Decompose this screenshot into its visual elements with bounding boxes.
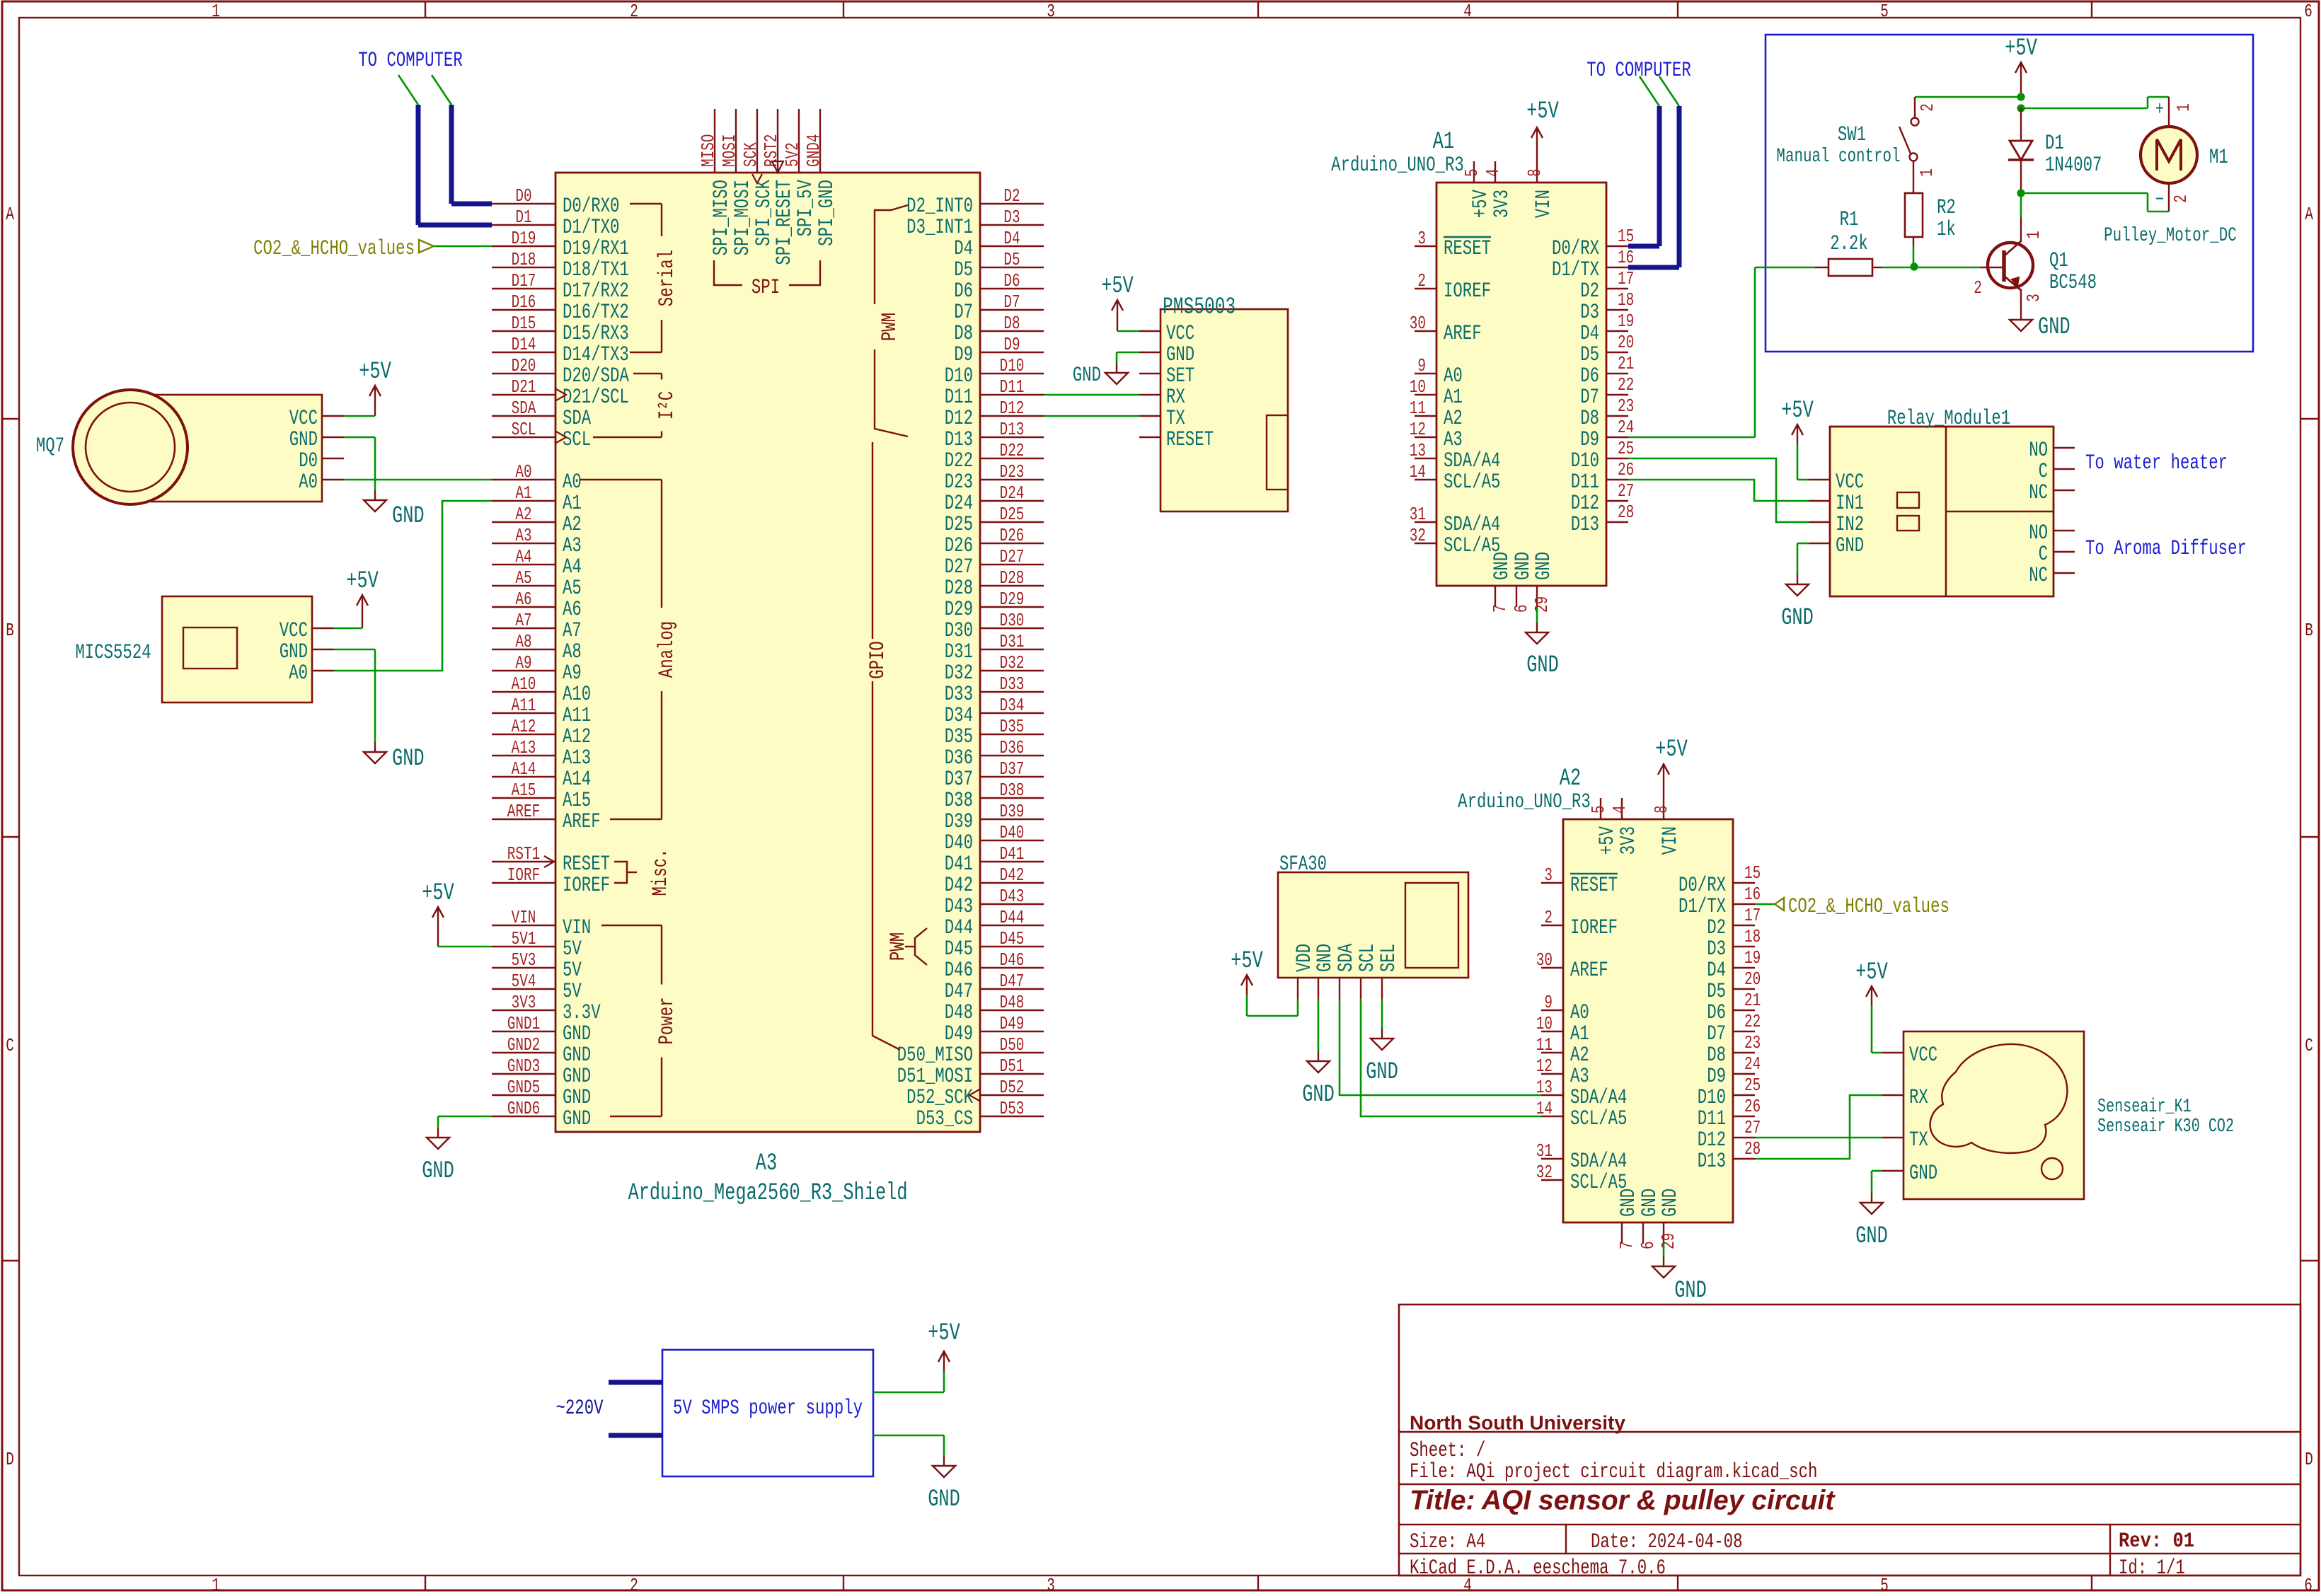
svg-text:D0/RX: D0/RX — [1552, 236, 1599, 260]
svg-text:D25: D25 — [1000, 504, 1025, 524]
svg-text:D1/TX0: D1/TX0 — [563, 215, 619, 239]
svg-text:PWM: PWM — [886, 932, 910, 961]
svg-text:D48: D48 — [1000, 992, 1025, 1012]
svg-text:D8: D8 — [1003, 313, 1020, 333]
svg-text:D2: D2 — [1580, 279, 1599, 303]
svg-text:17: 17 — [1744, 905, 1761, 925]
svg-text:RESET: RESET — [1570, 873, 1618, 897]
svg-text:A10: A10 — [563, 682, 591, 706]
svg-text:D49: D49 — [1000, 1013, 1025, 1034]
svg-text:VCC: VCC — [289, 406, 318, 430]
svg-text:D1: D1 — [2045, 131, 2064, 155]
svg-text:D11: D11 — [1698, 1106, 1726, 1130]
svg-text:Misc.: Misc. — [648, 848, 672, 896]
svg-text:A8: A8 — [563, 640, 582, 664]
svg-text:5V1: 5V1 — [512, 928, 536, 949]
svg-text:MQ7: MQ7 — [36, 434, 64, 458]
svg-text:D38: D38 — [945, 788, 973, 812]
svg-text:D31: D31 — [945, 640, 973, 664]
svg-text:A2: A2 — [563, 512, 582, 536]
svg-text:IOREF: IOREF — [563, 873, 610, 897]
svg-text:D24: D24 — [1000, 482, 1025, 503]
svg-text:10: 10 — [1410, 376, 1426, 397]
svg-text:D51: D51 — [1000, 1056, 1025, 1076]
svg-text:D21/SCL: D21/SCL — [563, 385, 629, 409]
svg-text:+5V: +5V — [359, 359, 391, 386]
svg-text:D47: D47 — [1000, 971, 1025, 991]
svg-text:3: 3 — [1544, 865, 1553, 885]
svg-text:D41: D41 — [1000, 843, 1025, 864]
svg-text:12: 12 — [1410, 419, 1426, 439]
svg-text:C: C — [6, 1035, 14, 1056]
svg-text:IN1: IN1 — [1836, 491, 1864, 515]
svg-text:D6: D6 — [954, 279, 973, 303]
svg-text:3: 3 — [1047, 1575, 1055, 1592]
svg-text:TO COMPUTER: TO COMPUTER — [358, 48, 463, 72]
svg-text:5: 5 — [1880, 1575, 1889, 1592]
svg-text:GND3: GND3 — [507, 1056, 540, 1076]
svg-text:D14/TX3: D14/TX3 — [563, 342, 629, 366]
svg-text:D7: D7 — [1707, 1022, 1726, 1046]
svg-text:A4: A4 — [563, 555, 582, 579]
svg-text:TX: TX — [1166, 406, 1185, 430]
svg-text:D34: D34 — [945, 703, 973, 727]
svg-text:D9: D9 — [1580, 427, 1599, 451]
svg-text:MISO: MISO — [698, 134, 718, 167]
svg-text:2: 2 — [2170, 195, 2191, 203]
svg-text:+5V: +5V — [422, 880, 454, 908]
svg-text:GND: GND — [1616, 1189, 1640, 1217]
svg-text:IORF: IORF — [507, 865, 540, 885]
svg-text:D2: D2 — [1707, 915, 1726, 939]
svg-text:D4: D4 — [954, 236, 973, 260]
svg-text:SPI_GND: SPI_GND — [814, 180, 839, 246]
svg-text:File: AQi project circuit diag: File: AQi project circuit diagram.kicad_… — [1410, 1459, 1817, 1484]
svg-text:M1: M1 — [2209, 145, 2228, 169]
svg-text:GND: GND — [563, 1085, 591, 1109]
svg-text:14: 14 — [1410, 461, 1426, 482]
svg-text:SDA: SDA — [512, 398, 536, 418]
svg-text:D21: D21 — [512, 376, 536, 397]
svg-text:D29: D29 — [945, 597, 973, 621]
svg-text:31: 31 — [1536, 1140, 1553, 1161]
svg-text:+: + — [2155, 98, 2165, 121]
svg-text:19: 19 — [1744, 947, 1761, 968]
svg-text:D6: D6 — [1003, 270, 1020, 291]
svg-text:D24: D24 — [945, 491, 973, 515]
svg-text:D0/RX: D0/RX — [1678, 873, 1726, 897]
svg-text:D3: D3 — [1707, 937, 1726, 961]
svg-text:CO2_&_HCHO_values: CO2_&_HCHO_values — [253, 236, 415, 260]
svg-text:2: 2 — [1417, 270, 1426, 291]
svg-text:Senseair K30 CO2: Senseair K30 CO2 — [2097, 1116, 2234, 1138]
svg-text:B: B — [2305, 620, 2313, 640]
svg-text:D15/RX3: D15/RX3 — [563, 321, 629, 345]
svg-text:D2: D2 — [1003, 185, 1020, 206]
svg-text:SDA: SDA — [563, 406, 591, 430]
svg-text:A0: A0 — [515, 461, 531, 482]
svg-text:D36: D36 — [1000, 737, 1025, 758]
svg-text:Manual control: Manual control — [1776, 145, 1900, 168]
svg-text:D33: D33 — [945, 682, 973, 706]
svg-text:A11: A11 — [563, 703, 591, 727]
svg-text:A0: A0 — [563, 470, 582, 494]
svg-text:PWM: PWM — [877, 313, 902, 341]
svg-text:VIN: VIN — [563, 915, 591, 939]
svg-text:D53: D53 — [1000, 1098, 1025, 1118]
svg-text:~220V: ~220V — [555, 1396, 603, 1420]
svg-text:RX: RX — [1909, 1085, 1928, 1109]
svg-text:Arduino_UNO_R3: Arduino_UNO_R3 — [1331, 153, 1464, 177]
svg-text:5V: 5V — [563, 958, 582, 982]
svg-text:VIN: VIN — [1531, 190, 1555, 218]
svg-text:GND: GND — [392, 503, 425, 531]
svg-text:IOREF: IOREF — [1444, 279, 1491, 303]
svg-text:7: 7 — [1616, 1241, 1637, 1249]
svg-text:8: 8 — [1651, 805, 1671, 814]
svg-text:D43: D43 — [945, 894, 973, 918]
svg-text:A15: A15 — [563, 788, 591, 812]
svg-text:D4: D4 — [1580, 321, 1599, 345]
svg-text:32: 32 — [1536, 1162, 1553, 1182]
svg-text:+5V: +5V — [1855, 959, 1888, 987]
svg-text:3.3V: 3.3V — [563, 1000, 601, 1024]
svg-text:SDA/A4: SDA/A4 — [1570, 1085, 1627, 1109]
svg-text:D25: D25 — [945, 512, 973, 536]
svg-text:D50: D50 — [1000, 1034, 1025, 1055]
svg-text:A14: A14 — [563, 767, 591, 791]
svg-text:+5V: +5V — [346, 568, 379, 596]
svg-text:D22: D22 — [945, 449, 973, 473]
svg-text:Id: 1/1: Id: 1/1 — [2119, 1556, 2185, 1580]
svg-text:8: 8 — [1524, 168, 1545, 177]
svg-text:A13: A13 — [563, 746, 591, 770]
svg-text:SPI_MOSI: SPI_MOSI — [730, 180, 754, 255]
svg-text:D44: D44 — [1000, 907, 1025, 927]
svg-text:D26: D26 — [945, 533, 973, 557]
svg-text:D9: D9 — [954, 342, 973, 366]
svg-text:GND: GND — [2038, 314, 2071, 342]
svg-text:SFA30: SFA30 — [1279, 852, 1327, 876]
svg-text:D17: D17 — [512, 270, 536, 291]
svg-text:A15: A15 — [512, 780, 536, 800]
svg-text:+5V: +5V — [1781, 398, 1814, 425]
svg-text:GND: GND — [1674, 1278, 1707, 1305]
svg-text:20: 20 — [1744, 968, 1761, 989]
svg-text:23: 23 — [1618, 395, 1634, 416]
svg-text:R1: R1 — [1840, 207, 1859, 231]
svg-text:GND5: GND5 — [507, 1077, 540, 1097]
svg-text:A2: A2 — [1444, 406, 1463, 430]
svg-text:GND: GND — [563, 1106, 591, 1130]
svg-text:+5V: +5V — [928, 1320, 960, 1348]
svg-text:D41: D41 — [945, 852, 973, 876]
svg-text:D15: D15 — [512, 313, 536, 333]
svg-text:SDA/A4: SDA/A4 — [1444, 449, 1500, 473]
svg-text:D10: D10 — [1571, 449, 1599, 473]
svg-text:24: 24 — [1744, 1053, 1761, 1074]
svg-text:D18/TX1: D18/TX1 — [563, 258, 629, 282]
svg-text:AREF: AREF — [1570, 958, 1608, 982]
svg-text:26: 26 — [1618, 459, 1634, 480]
svg-text:VCC: VCC — [1909, 1043, 1937, 1067]
svg-text:Q1: Q1 — [2049, 248, 2068, 272]
svg-text:Serial: Serial — [655, 250, 679, 306]
svg-text:26: 26 — [1744, 1096, 1761, 1116]
svg-text:D6: D6 — [1707, 1000, 1726, 1024]
svg-text:D50_MISO: D50_MISO — [897, 1043, 973, 1067]
svg-text:A0: A0 — [289, 661, 308, 685]
svg-text:D0: D0 — [515, 185, 531, 206]
svg-text:To water heater: To water heater — [2085, 451, 2228, 475]
svg-text:A9: A9 — [563, 661, 582, 685]
svg-text:D11: D11 — [1571, 470, 1599, 494]
svg-text:SCL/A5: SCL/A5 — [1570, 1106, 1627, 1130]
svg-text:A2: A2 — [1570, 1043, 1589, 1067]
svg-text:18: 18 — [1744, 926, 1761, 947]
svg-text:GND4: GND4 — [803, 134, 824, 167]
svg-text:5V3: 5V3 — [512, 949, 536, 970]
svg-text:4: 4 — [1482, 168, 1503, 177]
svg-text:D20: D20 — [512, 355, 536, 376]
svg-text:D39: D39 — [945, 809, 973, 833]
svg-text:1: 1 — [1916, 168, 1937, 177]
svg-text:GND: GND — [392, 746, 425, 773]
svg-text:GND: GND — [1313, 944, 1337, 972]
svg-text:D52: D52 — [1000, 1077, 1025, 1097]
svg-text:SEL: SEL — [1376, 944, 1400, 972]
svg-text:D7: D7 — [954, 300, 973, 324]
svg-text:GND1: GND1 — [507, 1013, 540, 1034]
svg-text:D9: D9 — [1003, 334, 1020, 354]
svg-text:D1/TX: D1/TX — [1552, 258, 1599, 282]
svg-text:5: 5 — [1461, 168, 1482, 177]
svg-text:A1: A1 — [1433, 129, 1454, 156]
svg-text:4: 4 — [1463, 1, 1472, 21]
svg-text:KiCad E.D.A. eeschema 7.0.6: KiCad E.D.A. eeschema 7.0.6 — [1410, 1556, 1666, 1580]
svg-text:AREF: AREF — [507, 801, 540, 821]
svg-text:D46: D46 — [945, 958, 973, 982]
svg-text:Date: 2024-04-08: Date: 2024-04-08 — [1591, 1529, 1742, 1554]
svg-text:6: 6 — [1637, 1241, 1658, 1249]
svg-text:3: 3 — [1417, 228, 1426, 248]
svg-text:D29: D29 — [1000, 589, 1025, 609]
svg-text:BC548: BC548 — [2049, 270, 2097, 294]
svg-text:RST1: RST1 — [507, 843, 540, 864]
svg-text:D37: D37 — [945, 767, 973, 791]
svg-text:D2_INT0: D2_INT0 — [906, 194, 973, 218]
svg-text:RESET: RESET — [1444, 236, 1491, 260]
svg-text:IOREF: IOREF — [1570, 915, 1618, 939]
svg-text:D40: D40 — [945, 831, 973, 855]
svg-text:D30: D30 — [945, 618, 973, 642]
svg-text:GND: GND — [289, 427, 318, 451]
svg-text:D9: D9 — [1707, 1064, 1726, 1088]
svg-text:A5: A5 — [515, 567, 531, 588]
svg-text:VIN: VIN — [1658, 826, 1682, 855]
svg-text:Pulley_Motor_DC: Pulley_Motor_DC — [2104, 224, 2237, 247]
svg-text:30: 30 — [1410, 313, 1426, 333]
svg-text:D13: D13 — [1698, 1149, 1726, 1173]
svg-text:D26: D26 — [1000, 525, 1025, 545]
svg-text:1: 1 — [2173, 103, 2194, 112]
svg-text:Size: A4: Size: A4 — [1410, 1529, 1485, 1554]
svg-text:NC: NC — [2029, 480, 2048, 504]
svg-text:GND: GND — [1531, 552, 1555, 580]
svg-text:A1: A1 — [563, 491, 582, 515]
svg-text:D12: D12 — [1000, 398, 1025, 418]
svg-text:D40: D40 — [1000, 822, 1025, 843]
svg-text:GND: GND — [1166, 342, 1194, 366]
svg-text:VCC: VCC — [1166, 321, 1194, 345]
svg-text:2: 2 — [630, 1, 638, 21]
svg-text:3V3: 3V3 — [1490, 190, 1514, 218]
svg-text:A12: A12 — [563, 724, 591, 748]
svg-text:A4: A4 — [515, 546, 531, 567]
svg-text:+5V: +5V — [1231, 948, 1263, 976]
svg-text:GND2: GND2 — [507, 1034, 540, 1055]
svg-text:30: 30 — [1536, 949, 1553, 970]
svg-text:5V: 5V — [563, 979, 582, 1003]
svg-text:A0: A0 — [1570, 1000, 1589, 1024]
svg-text:D7: D7 — [1580, 385, 1599, 409]
svg-text:Arduino_UNO_R3: Arduino_UNO_R3 — [1458, 790, 1591, 814]
svg-text:1N4007: 1N4007 — [2045, 153, 2102, 177]
svg-text:Arduino_Mega2560_R3_Shield: Arduino_Mega2560_R3_Shield — [628, 1180, 907, 1208]
svg-text:D53_CS: D53_CS — [916, 1106, 973, 1130]
svg-text:25: 25 — [1744, 1075, 1761, 1095]
svg-text:1: 1 — [212, 1, 220, 21]
svg-text:D13: D13 — [1571, 512, 1599, 536]
svg-text:D16/TX2: D16/TX2 — [563, 300, 629, 324]
svg-text:Analog: Analog — [655, 621, 679, 678]
svg-text:D33: D33 — [1000, 673, 1025, 694]
svg-text:D1: D1 — [515, 207, 531, 227]
svg-text:D13: D13 — [945, 427, 973, 451]
svg-text:5V SMPS power supply: 5V SMPS power supply — [673, 1396, 863, 1420]
svg-text:D48: D48 — [945, 1000, 973, 1024]
svg-text:D42: D42 — [945, 873, 973, 897]
svg-text:20: 20 — [1618, 332, 1634, 352]
svg-text:A0: A0 — [1444, 364, 1463, 388]
svg-text:A14: A14 — [512, 758, 536, 779]
svg-text:D5: D5 — [1707, 979, 1726, 1003]
svg-text:SET: SET — [1166, 364, 1194, 388]
svg-text:SCK: SCK — [740, 142, 761, 167]
svg-text:D42: D42 — [1000, 865, 1025, 885]
svg-text:D45: D45 — [1000, 928, 1025, 949]
svg-text:A1: A1 — [515, 482, 531, 503]
svg-text:D0: D0 — [299, 449, 318, 473]
svg-text:24: 24 — [1618, 417, 1634, 437]
svg-text:AREF: AREF — [563, 809, 601, 833]
svg-text:D: D — [2305, 1449, 2313, 1469]
svg-text:28: 28 — [1744, 1138, 1761, 1159]
svg-text:VCC: VCC — [280, 618, 308, 642]
svg-text:GND: GND — [1073, 363, 1101, 387]
svg-text:9: 9 — [1544, 992, 1553, 1012]
svg-text:GND: GND — [1909, 1161, 1937, 1185]
svg-text:19: 19 — [1618, 311, 1634, 331]
svg-text:D47: D47 — [945, 979, 973, 1003]
svg-text:GND: GND — [1836, 533, 1864, 557]
svg-text:Senseair_K1: Senseair_K1 — [2097, 1097, 2192, 1118]
svg-text:D22: D22 — [1000, 440, 1025, 461]
svg-text:SPI_5V: SPI_5V — [793, 180, 817, 237]
svg-text:A: A — [2305, 204, 2313, 224]
svg-text:Sheet: /: Sheet: / — [1410, 1438, 1485, 1462]
svg-text:GND6: GND6 — [507, 1098, 540, 1118]
svg-text:AREF: AREF — [1444, 321, 1482, 345]
svg-text:A2: A2 — [1560, 765, 1581, 793]
svg-text:D5: D5 — [1003, 249, 1020, 270]
svg-text:GND: GND — [563, 1043, 591, 1067]
svg-text:A0: A0 — [299, 470, 318, 494]
svg-text:5V2: 5V2 — [782, 142, 802, 167]
svg-text:To Aroma Diffuser: To Aroma Diffuser — [2085, 536, 2247, 560]
svg-text:29: 29 — [1531, 596, 1552, 613]
svg-text:I²C: I²C — [655, 391, 679, 420]
svg-text:D13: D13 — [1000, 419, 1025, 439]
svg-text:D12: D12 — [1698, 1128, 1726, 1152]
svg-text:D11: D11 — [1000, 376, 1025, 397]
svg-text:D49: D49 — [945, 1022, 973, 1046]
svg-text:D34: D34 — [1000, 695, 1025, 715]
svg-text:RESET: RESET — [563, 852, 610, 876]
svg-text:A1: A1 — [1444, 385, 1463, 409]
svg-text:31: 31 — [1410, 504, 1426, 524]
svg-text:A1: A1 — [1570, 1022, 1589, 1046]
svg-text:MOSI: MOSI — [719, 134, 739, 167]
svg-text:+5V: +5V — [1595, 826, 1619, 855]
svg-text:+5V: +5V — [1655, 736, 1688, 764]
svg-text:D17/RX2: D17/RX2 — [563, 279, 629, 303]
svg-text:A5: A5 — [563, 576, 582, 600]
svg-text:+5V: +5V — [1468, 190, 1492, 218]
svg-text:D23: D23 — [1000, 461, 1025, 482]
svg-text:15: 15 — [1744, 862, 1761, 883]
svg-text:16: 16 — [1744, 884, 1761, 904]
svg-text:A3: A3 — [563, 533, 582, 557]
svg-text:A6: A6 — [563, 597, 582, 621]
svg-text:IN2: IN2 — [1836, 512, 1864, 536]
svg-text:A13: A13 — [512, 737, 536, 758]
svg-text:GND: GND — [1781, 605, 1814, 632]
svg-text:A6: A6 — [515, 589, 531, 609]
svg-text:D28: D28 — [1000, 567, 1025, 588]
svg-text:D28: D28 — [945, 576, 973, 600]
svg-text:5: 5 — [1588, 805, 1608, 814]
svg-text:RESET: RESET — [1166, 427, 1214, 451]
svg-text:+5V: +5V — [1526, 98, 1559, 126]
svg-text:A9: A9 — [515, 652, 531, 673]
svg-text:13: 13 — [1410, 440, 1426, 461]
svg-text:D5: D5 — [954, 258, 973, 282]
svg-text:D39: D39 — [1000, 801, 1025, 821]
svg-text:SCL: SCL — [563, 427, 591, 451]
svg-text:D36: D36 — [945, 746, 973, 770]
svg-text:D43: D43 — [1000, 886, 1025, 906]
svg-text:D8: D8 — [1580, 406, 1599, 430]
svg-text:11: 11 — [1410, 398, 1426, 418]
svg-text:D19: D19 — [512, 228, 536, 248]
svg-text:PMS5003: PMS5003 — [1163, 294, 1236, 320]
svg-text:GND: GND — [563, 1064, 591, 1088]
svg-text:D45: D45 — [945, 937, 973, 961]
svg-text:22: 22 — [1618, 374, 1634, 395]
svg-text:D14: D14 — [512, 334, 536, 354]
svg-text:A3: A3 — [756, 1150, 777, 1178]
